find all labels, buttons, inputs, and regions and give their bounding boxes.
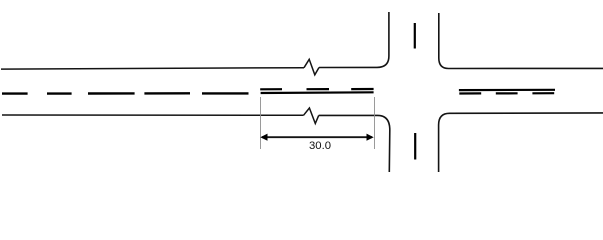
west approach broken line dash 1 (top of double line) (260, 88, 282, 90)
west road broken centerline dash 1 (2, 92, 28, 94)
west road top edge (right of break) with fillet into north road left edge (319, 12, 389, 68)
west road bottom edge (right of break) with fillet into south road left edge (319, 115, 390, 172)
dimension extension line left (260, 97, 262, 149)
east approach broken line dash 3 (bottom of double line) (532, 92, 554, 94)
west road broken centerline dash 3 (88, 92, 135, 94)
west approach broken line dash 3 (top of double line) (351, 88, 373, 90)
dimension line (262, 136, 372, 138)
east approach solid barrier line (top of double line) (459, 89, 555, 91)
south road right edge with fillet into east road bottom edge (439, 113, 603, 172)
west approach broken line dash 2 (top of double line) (307, 88, 330, 90)
east approach broken line dash 2 (bottom of double line) (496, 92, 518, 94)
dimension arrowhead left (260, 134, 267, 141)
break symbol on bottom edge (304, 108, 319, 124)
north road centerline dash (414, 23, 416, 49)
dimension arrowhead right (367, 134, 374, 141)
north road right edge with fillet into east road top edge (439, 13, 603, 69)
west road broken centerline dash 4 (144, 92, 190, 94)
break symbol on top edge (304, 59, 319, 75)
dimension extension line right (374, 97, 376, 149)
east approach broken line dash 1 (bottom of double line) (459, 92, 481, 94)
west road bottom edge (left of break) (2, 114, 304, 116)
west road broken centerline dash 5 (202, 92, 249, 94)
west road top edge (left of break) (1, 68, 304, 69)
south road centerline dash (414, 133, 416, 160)
svg-text:30.0: 30.0 (309, 140, 331, 152)
west road broken centerline dash 2 (47, 92, 72, 94)
west approach solid barrier line (bottom of double line) (261, 91, 374, 94)
